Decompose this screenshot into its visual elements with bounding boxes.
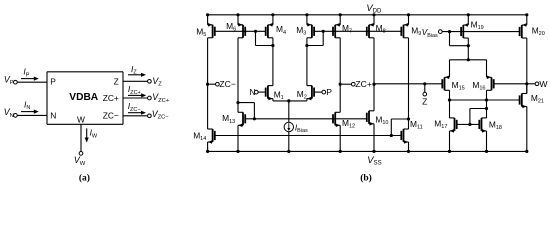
svg-text:P: P bbox=[326, 87, 332, 97]
svg-text:N: N bbox=[249, 87, 255, 97]
svg-text:ZC−: ZC− bbox=[219, 79, 235, 89]
svg-text:ZC−: ZC− bbox=[103, 111, 119, 121]
svg-text:Z: Z bbox=[114, 76, 119, 86]
svg-text:(b): (b) bbox=[360, 173, 372, 184]
svg-text:Z: Z bbox=[422, 97, 427, 107]
svg-text:(a): (a) bbox=[79, 173, 90, 184]
svg-text:N: N bbox=[50, 110, 56, 120]
svg-text:P: P bbox=[50, 76, 56, 86]
svg-text:W: W bbox=[77, 115, 85, 125]
svg-text:ZC+: ZC+ bbox=[355, 79, 371, 89]
svg-text:W: W bbox=[539, 79, 548, 89]
svg-text:VDBA: VDBA bbox=[69, 92, 99, 103]
svg-text:ZC+: ZC+ bbox=[103, 93, 119, 103]
